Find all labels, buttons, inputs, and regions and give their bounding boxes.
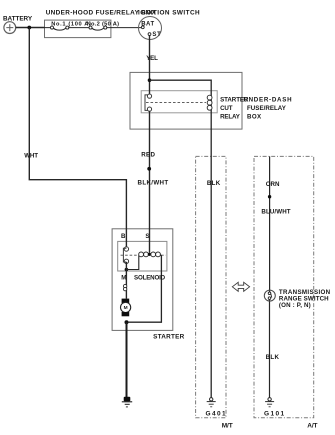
svg-text:BLU/WHT: BLU/WHT [261,209,290,216]
wire RED/BLK-WHT relay to starter S [149,111,151,253]
fuse No.1 (100 A) [51,26,54,29]
A/T dash-dot box [254,156,314,417]
field coil [123,284,126,287]
wire motor to ground [126,322,128,397]
solenoid mechanical link (dashed) [121,254,166,256]
svg-text:WHT: WHT [24,153,38,160]
svg-text:M/T: M/T [222,423,233,430]
relay mechanical link (dashed) [146,102,206,104]
relay coil [207,95,212,100]
svg-text:M: M [124,305,128,311]
under-hood fuse/relay box [45,20,111,37]
starter cut relay U1 (inner relay box) [141,91,217,113]
svg-text:BLK: BLK [266,354,280,361]
ignition ST terminal [148,33,151,36]
M/T A/T alternative arrow [232,282,249,291]
svg-text:FUSE/RELAY: FUSE/RELAY [247,105,287,112]
motor M [122,299,130,303]
ground G101 [268,398,271,401]
node ORN to BLU/WHT splice [268,195,271,198]
wire ORN/BLU-WHT A/T [269,156,271,397]
svg-text:BATTERY: BATTERY [3,16,33,23]
wire battery to fuse box [16,27,45,29]
svg-text:No.2 (50 A): No.2 (50 A) [87,22,120,28]
wire relay coil feed and BLK to G401 [150,80,212,397]
wire through fuses [45,28,142,31]
solenoid box [118,241,167,271]
svg-text:BLK: BLK [207,180,221,187]
pull-in coil [139,252,144,257]
svg-text:No.1 (100 A): No.1 (100 A) [51,21,91,27]
ground G401 [210,398,213,401]
svg-text:A/T: A/T [307,423,317,430]
wire WHT battery to starter B [29,28,126,248]
wire M junction to motor [125,270,127,299]
node motor minus junction [125,320,129,324]
transmission range switch [264,290,275,301]
svg-text:STARTER: STARTER [153,334,184,341]
starter contact blade [123,248,126,262]
hold-in coil [151,252,156,257]
wire M junction to pull-in coil [126,255,138,269]
svg-text:RED: RED [141,151,155,158]
under-dash fuse/relay box [130,72,242,129]
svg-text:BAT: BAT [141,21,154,27]
svg-text:ST: ST [152,32,161,38]
fuse No.2 (50 A) [89,26,92,29]
wire contact bottom to M junction [125,262,127,270]
svg-text:YEL: YEL [146,55,158,62]
svg-text:BLK/WHT: BLK/WHT [138,180,169,187]
ignition BAT terminal [141,26,144,29]
svg-text:IGNITION SWITCH: IGNITION SWITCH [138,10,200,17]
starter B terminal [124,247,128,251]
relay contact blade [145,95,148,111]
svg-text:UNDER-DASH: UNDER-DASH [243,96,292,103]
M/T dash-dot box [196,156,226,417]
node S coil junction [148,253,151,256]
svg-text:(ON : P, N): (ON : P, N) [279,302,311,309]
node relay feed junction [148,78,152,82]
relay contact terminals [147,94,151,98]
wire hold-in coil return to motor minus [128,255,161,322]
svg-text:RELAY: RELAY [220,114,241,121]
node solenoid M junction [125,268,129,272]
svg-text:B: B [121,233,126,240]
svg-text:SOLENOID: SOLENOID [134,275,166,282]
svg-text:S: S [145,233,149,240]
ignition switch [139,17,162,40]
ground starter (chassis) [124,397,131,402]
svg-text:M: M [121,275,126,282]
starter contact bottom terminal [124,259,128,263]
node battery junction [27,26,31,30]
svg-text:ORN: ORN [266,181,280,188]
svg-text:BOX: BOX [247,114,262,121]
starter box [112,229,173,331]
node RED to BLK/WHT splice [147,167,151,171]
svg-text:CUT: CUT [220,105,233,112]
wire YEL ignition ST to relay [149,36,151,95]
battery [4,22,16,34]
